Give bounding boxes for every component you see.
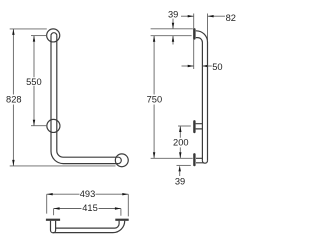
dimension 415 arrow right bbox=[115, 207, 121, 209]
svg-text:828: 828 bbox=[6, 95, 22, 105]
tube right end rounded cap bbox=[119, 157, 122, 163]
svg-text:200: 200 bbox=[173, 138, 189, 148]
dimension 828 line bbox=[12, 29, 14, 166]
plan right flange bar bbox=[115, 219, 128, 221]
dimension 39 bottom up arrow bbox=[179, 171, 181, 176]
dimension 82 line left part with right-pointing arrow bbox=[181, 15, 194, 17]
dimension 50 line left part with right-pointing arrow bbox=[182, 65, 194, 67]
side tube inner edge with top bend bbox=[196, 38, 203, 161]
svg-text:39: 39 bbox=[175, 177, 185, 187]
grab-bar vertical tube outer edge with L-bend to horizontal run bbox=[51, 36, 119, 164]
dimension 200 arrow down bbox=[179, 152, 181, 158]
right end wall flange disc bbox=[115, 154, 128, 167]
dimension 750 arrow up bbox=[153, 36, 155, 42]
dimension 550 arrow down bbox=[33, 120, 35, 126]
side extension line bottom flange centre bbox=[151, 157, 193, 159]
svg-text:415: 415 bbox=[82, 203, 98, 213]
svg-text:750: 750 bbox=[147, 95, 163, 105]
side extension line bar bottom bbox=[177, 164, 191, 166]
dimension 750 arrow down bbox=[153, 152, 155, 158]
wall extension line bbox=[193, 14, 195, 70]
plan tube top line with right bend inner arc bbox=[56, 221, 120, 228]
dimension 550 extension line top bbox=[31, 35, 47, 37]
dimension 415 line bbox=[54, 208, 121, 210]
side middle flange bar bbox=[193, 121, 195, 132]
svg-text:82: 82 bbox=[226, 13, 236, 23]
side extension line middle flange centre bbox=[178, 125, 191, 127]
plan tube bottom line with right bend outer arc bbox=[53, 221, 125, 233]
dimension 550 extension line bottom bbox=[31, 125, 47, 127]
dimension 200 line bbox=[179, 126, 181, 158]
tube top rounded cap bbox=[51, 33, 57, 36]
dimension 828 extension line top bbox=[10, 28, 47, 30]
plan top-bend stub seen from above bbox=[51, 221, 56, 233]
dimension 82 line right part with left-pointing arrow bbox=[208, 15, 225, 17]
plan left flange bar bbox=[46, 219, 60, 221]
grab-bar inner edge of tube and bend bbox=[57, 36, 119, 158]
dimension 828 extension line bottom bbox=[10, 165, 116, 167]
side tube bottom rounded cap bbox=[202, 161, 207, 164]
dimension 828 arrow down bbox=[12, 160, 14, 166]
dimension 750 line bbox=[153, 36, 155, 159]
middle wall flange disc bbox=[47, 119, 60, 132]
dimension 493 arrow left bbox=[47, 193, 53, 195]
dimension 493 extension lines bbox=[47, 194, 129, 216]
dimension 200 arrow up bbox=[179, 126, 181, 132]
dimension 493 line bbox=[47, 193, 129, 195]
dimension 82 extension line bbox=[207, 14, 209, 41]
dimension 550 arrow up bbox=[33, 36, 35, 42]
dimension 39 top down arrow bbox=[172, 19, 174, 29]
svg-text:493: 493 bbox=[80, 189, 96, 199]
side bottom stub to end flange bbox=[196, 158, 204, 163]
side extension line bar top bbox=[151, 28, 193, 30]
side top flange bar bbox=[193, 29, 195, 38]
dimension 50 leader with left-pointing arrow bbox=[202, 65, 212, 67]
dimension 493 arrow right bbox=[122, 193, 128, 195]
svg-text:50: 50 bbox=[212, 62, 222, 72]
side middle flange neck bbox=[196, 124, 203, 129]
dimension 828 arrow up bbox=[12, 29, 14, 35]
side tube outer edge with top bend bbox=[196, 31, 208, 161]
top wall flange disc bbox=[47, 29, 60, 42]
side extension line top flange centre bbox=[151, 35, 192, 37]
dimension 415 extension lines bbox=[54, 209, 121, 216]
dimension 39 top up arrow bbox=[172, 36, 174, 45]
dimension 550 line bbox=[33, 36, 35, 126]
svg-text:550: 550 bbox=[26, 77, 42, 87]
svg-text:39: 39 bbox=[168, 9, 178, 19]
side bottom flange bar bbox=[193, 154, 195, 165]
dimension 415 arrow left bbox=[54, 207, 60, 209]
